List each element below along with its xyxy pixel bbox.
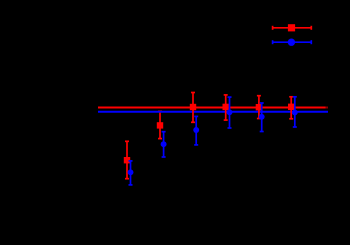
blue errorbar point 5 xyxy=(259,103,265,132)
blue errorbar point 1 xyxy=(128,161,134,185)
red errorbar point 5 xyxy=(256,96,262,119)
legend blue entry xyxy=(273,39,312,46)
red errorbar point 2 xyxy=(157,111,163,138)
red errorbar point 6 xyxy=(288,97,294,119)
blue errorbar point 2 xyxy=(161,132,167,157)
red errorbar point 3 xyxy=(190,93,196,123)
red fit line xyxy=(98,107,326,109)
red errorbar point 4 xyxy=(223,95,229,120)
blue errorbar point 4 xyxy=(227,97,233,128)
legend red entry xyxy=(273,24,312,31)
red fit line dark end segment xyxy=(326,107,329,109)
blue fit line xyxy=(98,111,328,113)
red errorbar point 1 xyxy=(124,141,130,178)
blue errorbar point 6 xyxy=(292,97,298,127)
blue errorbar point 3 xyxy=(193,116,199,144)
